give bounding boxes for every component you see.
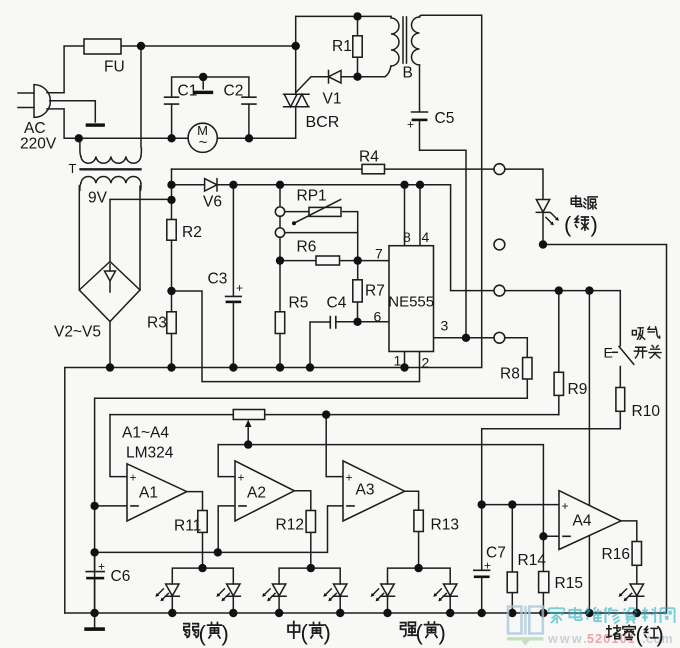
svg-text:(: ( [301,620,309,645]
svg-text:E: E [604,345,613,361]
svg-text:R12: R12 [276,517,304,534]
svg-text:(: ( [636,622,644,647]
svg-text:6: 6 [374,309,382,325]
svg-text:+: + [484,559,491,573]
svg-text:C6: C6 [111,568,131,585]
svg-text:R1: R1 [332,38,352,55]
svg-text:T: T [69,161,77,176]
svg-text:R2: R2 [182,224,202,241]
svg-text:www.: www. [547,632,589,646]
svg-text:C3: C3 [208,271,228,288]
svg-text:V2~V5: V2~V5 [54,324,101,341]
svg-text:R7: R7 [365,283,385,300]
svg-text:): ) [324,620,331,645]
svg-text:+: + [407,118,414,132]
svg-text:(: ( [564,212,572,237]
svg-text:): ) [222,621,229,646]
svg-text:A1~A4: A1~A4 [122,425,169,442]
svg-text:+: + [236,281,243,295]
svg-text:R10: R10 [632,403,661,420]
svg-text:R3: R3 [147,315,167,332]
svg-text:A2: A2 [247,485,266,502]
svg-text:A4: A4 [573,513,592,530]
svg-text:C5: C5 [435,110,455,127]
svg-text:3: 3 [441,318,449,334]
svg-text:BCR: BCR [306,114,340,131]
svg-text:C4: C4 [327,295,347,312]
svg-text:+: + [98,560,105,574]
svg-text:AC: AC [24,120,46,137]
svg-text:R6: R6 [297,239,317,256]
svg-text:R16: R16 [602,546,630,563]
svg-text:A1: A1 [139,485,158,502]
svg-text:): ) [591,212,598,237]
svg-text:7: 7 [375,246,383,262]
svg-text:R8: R8 [500,366,520,383]
svg-text:FU: FU [104,59,125,76]
svg-text:R5: R5 [289,295,309,312]
svg-text:): ) [657,622,664,647]
svg-text:220V: 220V [20,136,57,153]
svg-text:+: + [238,471,245,485]
svg-text:+: + [562,499,569,513]
svg-text:LM324: LM324 [126,445,174,462]
svg-text:8: 8 [403,229,411,245]
svg-text:1: 1 [394,353,402,369]
svg-text:9V: 9V [88,190,108,207]
svg-text:V6: V6 [203,194,222,211]
svg-text:R9: R9 [568,381,588,398]
svg-text:+: + [346,471,353,485]
svg-text:4: 4 [422,229,430,245]
svg-text:A3: A3 [356,482,375,499]
svg-text:~: ~ [199,134,208,151]
svg-text:2: 2 [422,355,430,371]
svg-text:R13: R13 [431,517,459,534]
svg-text:RP1: RP1 [297,188,327,205]
svg-text:V1: V1 [323,91,342,108]
svg-text:(: ( [416,620,424,645]
svg-text:+: + [130,471,137,485]
svg-text:R15: R15 [555,575,583,592]
svg-text:B: B [403,65,413,82]
svg-text:R11: R11 [174,518,201,535]
svg-text:R4: R4 [359,149,379,166]
svg-text:C2: C2 [224,83,244,100]
svg-text:(: ( [199,621,207,646]
svg-text:): ) [439,620,446,645]
svg-text:NE555: NE555 [388,294,434,311]
svg-text:C1: C1 [178,83,198,100]
svg-text:R14: R14 [518,552,547,569]
